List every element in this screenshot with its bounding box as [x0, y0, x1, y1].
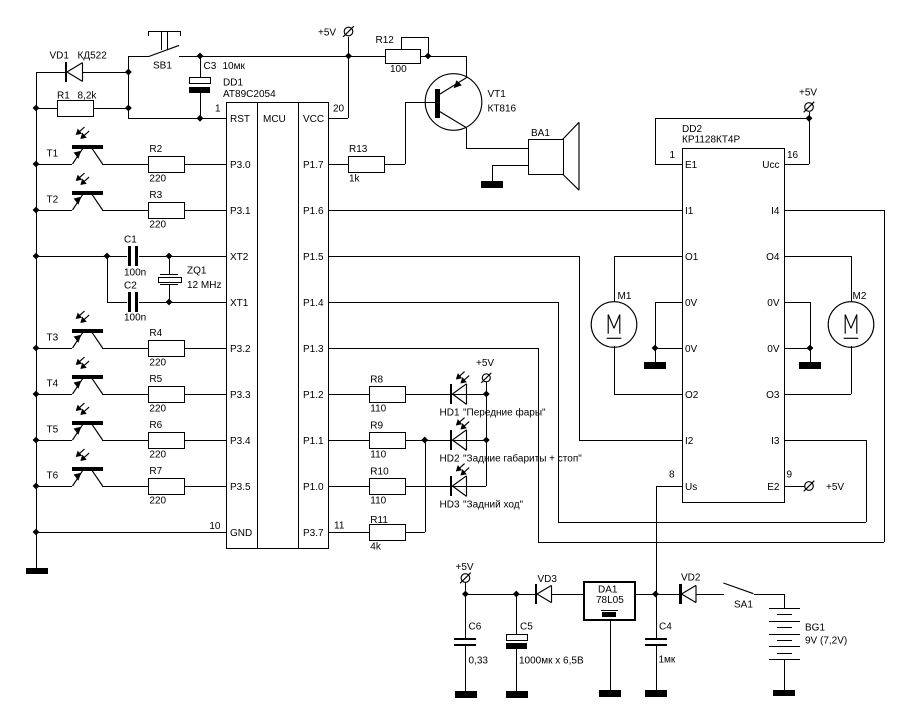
svg-text:220: 220	[149, 403, 166, 414]
svg-text:P1.4: P1.4	[303, 298, 324, 309]
svg-text:Us: Us	[685, 482, 697, 493]
svg-text:1000мк x 6,5В: 1000мк x 6,5В	[519, 656, 584, 667]
svg-text:10мк: 10мк	[223, 61, 246, 72]
svg-text:R13: R13	[349, 144, 368, 155]
svg-text:R7: R7	[149, 466, 162, 477]
svg-text:P3.4: P3.4	[230, 436, 251, 447]
svg-text:100n: 100n	[124, 267, 146, 278]
svg-text:T4: T4	[47, 379, 59, 390]
svg-text:E2: E2	[767, 482, 780, 493]
svg-text:T6: T6	[47, 471, 59, 482]
svg-text:DA1: DA1	[598, 585, 618, 596]
svg-text:+5V: +5V	[826, 482, 844, 493]
svg-text:10: 10	[209, 521, 221, 532]
svg-text:GND: GND	[230, 528, 252, 539]
svg-text:110: 110	[370, 403, 386, 414]
svg-text:1мк: 1мк	[659, 655, 676, 666]
svg-text:100n: 100n	[124, 312, 146, 323]
svg-text:O4: O4	[766, 252, 780, 263]
svg-text:C1: C1	[124, 234, 137, 245]
svg-text:1k: 1k	[349, 173, 361, 184]
svg-text:P3.5: P3.5	[230, 482, 251, 493]
svg-text:КД522: КД522	[78, 50, 108, 61]
svg-text:R9: R9	[370, 421, 383, 432]
svg-text:КР1128КТ4Р: КР1128КТ4Р	[682, 135, 740, 146]
svg-text:C5: C5	[520, 621, 533, 632]
svg-text:R8: R8	[370, 375, 383, 386]
svg-text:Ucc: Ucc	[762, 160, 779, 171]
svg-text:0,33: 0,33	[469, 656, 489, 667]
svg-text:P3.0: P3.0	[230, 160, 251, 171]
svg-text:+5V: +5V	[456, 562, 474, 573]
svg-text:P1.7: P1.7	[303, 160, 324, 171]
svg-text:R5: R5	[149, 374, 162, 385]
svg-text:R12: R12	[376, 35, 395, 46]
svg-text:P1.6: P1.6	[303, 206, 324, 217]
svg-text:T2: T2	[47, 195, 59, 206]
svg-text:VD2: VD2	[681, 573, 701, 584]
svg-text:O2: O2	[685, 390, 699, 401]
svg-text:220: 220	[149, 219, 166, 230]
svg-text:"Передние фары": "Передние фары"	[463, 407, 546, 419]
svg-text:11: 11	[334, 521, 345, 532]
svg-text:"Задний ход": "Задний ход"	[463, 500, 524, 511]
svg-text:100: 100	[390, 64, 407, 75]
svg-text:C2: C2	[124, 280, 137, 291]
svg-text:220: 220	[149, 495, 166, 506]
svg-text:AT89C2054: AT89C2054	[223, 89, 276, 100]
svg-text:1: 1	[215, 103, 221, 114]
svg-text:P1.2: P1.2	[303, 390, 324, 401]
svg-text:T1: T1	[47, 149, 59, 160]
svg-text:I4: I4	[771, 206, 780, 217]
svg-text:9: 9	[787, 470, 793, 481]
svg-text:VD3: VD3	[538, 574, 558, 585]
svg-text:XT1: XT1	[230, 298, 249, 309]
svg-text:DD2: DD2	[682, 124, 702, 135]
svg-text:+5V: +5V	[318, 27, 336, 38]
svg-text:20: 20	[333, 103, 345, 114]
svg-text:220: 220	[149, 357, 166, 368]
svg-text:HD3: HD3	[440, 500, 460, 511]
svg-text:0V: 0V	[685, 344, 698, 355]
svg-text:VCC: VCC	[303, 114, 324, 125]
svg-text:O1: O1	[685, 252, 699, 263]
svg-text:9V (7,2V): 9V (7,2V)	[805, 635, 847, 646]
svg-text:VD1: VD1	[50, 50, 70, 61]
svg-text:P1.0: P1.0	[303, 482, 324, 493]
svg-text:8: 8	[669, 470, 675, 481]
svg-text:O3: O3	[766, 390, 780, 401]
svg-text:P3.7: P3.7	[303, 528, 324, 539]
svg-text:P1.5: P1.5	[303, 252, 324, 263]
svg-text:КТ816: КТ816	[488, 104, 517, 115]
svg-text:4k: 4k	[370, 542, 382, 553]
svg-text:P3.1: P3.1	[230, 206, 251, 217]
svg-text:ZQ1: ZQ1	[187, 266, 207, 277]
svg-text:I1: I1	[685, 206, 694, 217]
svg-text:220: 220	[149, 449, 166, 460]
svg-text:R11: R11	[370, 515, 388, 526]
svg-text:P3.2: P3.2	[230, 344, 251, 355]
svg-text:0V: 0V	[767, 298, 780, 309]
svg-text:P3.3: P3.3	[230, 390, 251, 401]
svg-text:M2: M2	[853, 291, 867, 302]
svg-text:T3: T3	[47, 333, 59, 344]
svg-text:XT2: XT2	[230, 252, 249, 263]
svg-text:E1: E1	[685, 160, 698, 171]
svg-text:P1.1: P1.1	[303, 436, 324, 447]
svg-text:C4: C4	[659, 622, 672, 633]
svg-text:8,2k: 8,2k	[78, 91, 98, 102]
svg-text:BA1: BA1	[531, 128, 550, 139]
svg-text:VT1: VT1	[488, 89, 507, 100]
svg-text:MCU: MCU	[263, 114, 286, 125]
svg-text:0V: 0V	[685, 298, 698, 309]
svg-text:R4: R4	[149, 328, 162, 339]
svg-text:BG1: BG1	[805, 623, 825, 634]
svg-text:110: 110	[370, 495, 386, 506]
svg-text:R2: R2	[149, 144, 162, 155]
svg-text:220: 220	[149, 173, 166, 184]
svg-text:16: 16	[787, 150, 799, 161]
svg-text:R10: R10	[370, 467, 389, 478]
svg-text:P1.3: P1.3	[303, 344, 324, 355]
svg-text:DD1: DD1	[223, 77, 243, 88]
svg-text:I3: I3	[771, 436, 780, 447]
svg-text:HD2: HD2	[440, 454, 460, 465]
svg-text:+5V: +5V	[476, 358, 494, 369]
svg-text:I2: I2	[685, 436, 694, 447]
svg-text:1: 1	[669, 150, 675, 161]
svg-text:HD1: HD1	[440, 408, 460, 419]
svg-text:SA1: SA1	[734, 600, 753, 611]
svg-text:C6: C6	[469, 621, 482, 632]
svg-text:M1: M1	[618, 291, 632, 302]
svg-text:"Задние габариты + стоп": "Задние габариты + стоп"	[463, 453, 582, 465]
svg-text:R6: R6	[149, 420, 162, 431]
svg-text:0V: 0V	[767, 344, 780, 355]
svg-text:R3: R3	[149, 190, 162, 201]
svg-text:78L05: 78L05	[596, 595, 624, 606]
svg-text:SB1: SB1	[153, 61, 172, 72]
svg-text:C3: C3	[204, 61, 217, 72]
svg-text:110: 110	[370, 449, 386, 460]
svg-text:+5V: +5V	[799, 88, 817, 99]
svg-text:T5: T5	[47, 425, 59, 436]
svg-text:12 MHz: 12 MHz	[187, 280, 221, 291]
svg-text:RST: RST	[230, 114, 250, 125]
svg-text:R1: R1	[57, 91, 70, 102]
